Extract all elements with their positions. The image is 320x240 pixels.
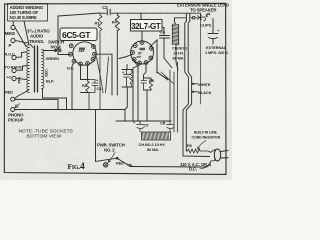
svg-text:32L7-GT: 32L7-GT	[131, 22, 161, 31]
svg-text:BOTTOM VIEW: BOTTOM VIEW	[27, 133, 62, 139]
svg-text:PICKUP: PICKUP	[8, 117, 24, 122]
svg-text:TO RADIO: TO RADIO	[5, 65, 23, 70]
svg-text:TO SPEAKER: TO SPEAKER	[190, 8, 217, 13]
svg-text:6C5-GT: 6C5-GT	[62, 30, 91, 40]
svg-text:NO.30 E.WIRE: NO.30 E.WIRE	[10, 15, 37, 20]
svg-text:NO. 2: NO. 2	[104, 148, 115, 153]
svg-text:80 MA.: 80 MA.	[147, 147, 159, 152]
svg-text:TRANS.: TRANS.	[29, 39, 44, 44]
svg-text:NO. 1: NO. 1	[51, 45, 62, 50]
svg-text:RED: RED	[116, 160, 124, 165]
svg-text:C4: C4	[160, 30, 166, 35]
svg-text:80 MA.: 80 MA.	[173, 56, 185, 61]
svg-text:MIKE: MIKE	[5, 31, 15, 36]
svg-text:WHITE: WHITE	[198, 82, 211, 87]
svg-text:1 MFD. 200 V.: 1 MFD. 200 V.	[205, 50, 228, 55]
svg-text:BUILT-IN LINE: BUILT-IN LINE	[194, 131, 217, 135]
svg-text:PRI.: PRI.	[17, 76, 22, 83]
svg-text:87: 87	[138, 52, 142, 56]
svg-text:CORD RESISTOR: CORD RESISTOR	[192, 136, 221, 140]
svg-text:GREEN: GREEN	[46, 56, 60, 61]
svg-text:P: P	[9, 43, 12, 48]
svg-text:CLIPS: CLIPS	[200, 23, 211, 28]
svg-text:N.U.C.: N.U.C.	[5, 52, 16, 57]
svg-text:BLK: BLK	[46, 79, 54, 84]
svg-text:AUDIO: AUDIO	[30, 34, 44, 39]
svg-text:+C: +C	[7, 75, 12, 80]
svg-text:N.C.: N.C.	[67, 66, 74, 71]
svg-text:SEC.: SEC.	[44, 68, 49, 77]
svg-text:BLACK: BLACK	[198, 90, 211, 95]
svg-text:RED: RED	[5, 90, 13, 95]
svg-text:C2: C2	[102, 5, 108, 10]
svg-text:D.C.: D.C.	[189, 166, 197, 171]
